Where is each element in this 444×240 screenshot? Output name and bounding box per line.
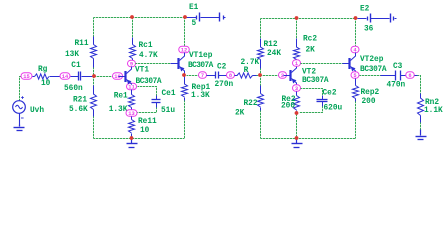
svg-text:7: 7 (201, 73, 204, 79)
svg-text:Rep2: Rep2 (361, 89, 380, 97)
svg-text:4.7K: 4.7K (139, 52, 158, 60)
svg-text:1: 1 (295, 61, 298, 67)
svg-text:10: 10 (41, 80, 51, 88)
svg-text:R11: R11 (75, 40, 89, 48)
svg-text:15: 15 (23, 74, 29, 80)
svg-text:2K: 2K (235, 110, 245, 118)
svg-text:5.6K: 5.6K (69, 106, 88, 114)
svg-text:BC307A: BC307A (136, 78, 162, 86)
svg-text:Rn2: Rn2 (425, 99, 439, 107)
svg-text:6: 6 (408, 73, 411, 79)
svg-text:24K: 24K (267, 50, 281, 58)
svg-text:C3: C3 (393, 63, 403, 71)
svg-text:270n: 270n (215, 81, 234, 89)
svg-text:8: 8 (229, 73, 232, 79)
svg-text:Rc2: Rc2 (303, 36, 317, 44)
svg-text:BC307A: BC307A (360, 66, 387, 74)
svg-text:10: 10 (140, 127, 150, 135)
svg-text:Ce1: Ce1 (162, 90, 176, 98)
svg-text:VT2ep: VT2ep (360, 56, 384, 64)
svg-text:Uvh: Uvh (30, 107, 44, 115)
svg-text:Re1: Re1 (114, 92, 128, 100)
svg-text:BC307A: BC307A (302, 77, 329, 85)
svg-text:51u: 51u (161, 107, 175, 115)
svg-text:2K: 2K (306, 46, 316, 54)
svg-text:E2: E2 (360, 6, 370, 14)
svg-text:VT1: VT1 (135, 66, 149, 74)
svg-text:1.3K: 1.3K (109, 106, 128, 114)
svg-text:C2: C2 (217, 63, 227, 71)
svg-text:5: 5 (192, 20, 197, 28)
svg-text:Ce2: Ce2 (323, 90, 337, 98)
svg-text:Re11: Re11 (138, 118, 157, 126)
svg-text:200: 200 (362, 98, 376, 106)
svg-text:2.7K: 2.7K (241, 59, 260, 67)
svg-text:Rep1: Rep1 (192, 84, 211, 92)
svg-text:R12: R12 (264, 41, 278, 49)
svg-text:VT2: VT2 (302, 68, 316, 76)
svg-text:5: 5 (353, 73, 356, 79)
svg-text:3: 3 (295, 86, 298, 92)
svg-text:620u: 620u (324, 105, 343, 113)
svg-text:560n: 560n (64, 85, 83, 93)
svg-text:Rg: Rg (38, 66, 48, 74)
svg-text:R21: R21 (73, 96, 87, 104)
svg-text:14: 14 (62, 74, 69, 80)
svg-text:36: 36 (364, 26, 374, 34)
svg-text:13: 13 (128, 111, 134, 117)
svg-text:R: R (244, 67, 249, 75)
svg-text:200: 200 (281, 103, 295, 111)
svg-text:BC307A: BC307A (188, 62, 214, 70)
svg-text:Rc1: Rc1 (139, 42, 153, 50)
svg-text:E1: E1 (189, 4, 199, 12)
svg-text:R22: R22 (244, 100, 258, 108)
svg-text:C1: C1 (71, 62, 81, 70)
svg-text:13K: 13K (65, 51, 79, 59)
svg-text:470n: 470n (387, 82, 406, 90)
svg-text:1.3K: 1.3K (191, 92, 210, 100)
svg-text:VT1ep: VT1ep (189, 52, 213, 60)
svg-text:1.1K: 1.1K (424, 107, 443, 115)
